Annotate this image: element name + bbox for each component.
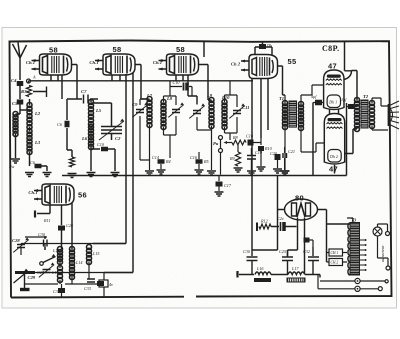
coil L5: [89, 100, 94, 127]
wire grid: [61, 205, 63, 225]
node terminal right 1: [378, 224, 390, 236]
wire cathode tap: [33, 87, 47, 98]
coil T2 primary: [355, 98, 360, 132]
tube V7 56: [28, 184, 74, 205]
wire grid bus: [29, 81, 254, 83]
wire from frame: [203, 42, 205, 58]
variable capacitor C2: [99, 103, 124, 141]
variable capacitor C9: [132, 102, 148, 117]
wire top cap box: [255, 42, 272, 55]
capacitor C32: [303, 247, 319, 275]
capacitor C8: [97, 142, 108, 151]
capacitor C33: [84, 279, 104, 291]
tube V2 58: [89, 54, 135, 75]
coil L6: [89, 125, 94, 150]
ground: [8, 159, 20, 169]
wire: [327, 253, 348, 263]
capacitor C26: [58, 223, 74, 231]
coil T1 primary: [283, 101, 288, 130]
lamp: [373, 224, 382, 258]
capacitor C22: [30, 160, 42, 168]
wire: [176, 65, 212, 105]
coil T3 primary: [348, 223, 350, 275]
fuse 2: [318, 286, 378, 291]
antenna: [13, 43, 27, 81]
wire: [285, 85, 324, 170]
ground: [111, 173, 120, 177]
wire: [212, 81, 238, 170]
coil L13: [58, 266, 63, 283]
wire right loop: [278, 66, 286, 95]
coil L9: [209, 98, 214, 129]
choke L16: [254, 266, 271, 282]
coil L15: [87, 245, 92, 265]
coil L7: [147, 97, 152, 128]
wire: [91, 149, 115, 171]
node terminal: [35, 211, 50, 224]
wire: [67, 99, 72, 157]
resistor R7: [21, 86, 32, 97]
ground: [25, 173, 34, 177]
capacitor C34: [341, 97, 357, 109]
capacitor C35: [305, 240, 314, 247]
box CH2: [329, 259, 343, 266]
wire: [16, 114, 21, 158]
coil L2: [27, 103, 32, 130]
wire long vertical to oscillator 2: [104, 73, 133, 273]
variable capacitor C29: [14, 269, 36, 290]
tube V8 80: [285, 199, 318, 220]
ground: [207, 171, 216, 175]
node terminal: [256, 223, 258, 232]
diode cap Dh: [259, 43, 272, 49]
tube V6 47: [324, 114, 344, 165]
coil L1: [13, 112, 18, 137]
wire: [42, 166, 48, 171]
wire 47 plate 2: [345, 129, 357, 154]
switch S1: [40, 254, 56, 265]
capacitor C14 with ground: [152, 155, 171, 174]
capacitor C18: [246, 134, 254, 146]
wire: [20, 99, 30, 114]
transformer core T1: [289, 101, 297, 127]
node terminal right 2: [386, 258, 390, 270]
variable capacitor C11: [229, 103, 249, 118]
wire outer frame loop: [10, 41, 392, 298]
node Pu terminals: [213, 136, 223, 153]
capacitor C6: [57, 121, 70, 128]
wire: [197, 117, 212, 130]
wire box A: [103, 273, 105, 297]
ground: [281, 171, 290, 175]
wire osc top: [21, 237, 126, 250]
capacitor C15 with ground: [257, 146, 273, 171]
resistor R6: [69, 157, 74, 167]
variable capacitor C27: [37, 262, 54, 277]
capacitor C20: [270, 151, 282, 173]
transformer core T2: [361, 100, 368, 128]
wire long vertical to oscillator: [93, 74, 126, 244]
wire ground bus: [62, 103, 347, 176]
choke L17: [287, 266, 305, 282]
wire 80 plates: [252, 176, 350, 263]
ground: [68, 174, 77, 178]
ground: [247, 171, 256, 175]
node B terminal: [236, 271, 238, 278]
capacitor C30b: [243, 249, 258, 275]
ground: [145, 171, 154, 175]
wire: [221, 138, 262, 175]
wire filter line: [239, 275, 320, 278]
capacitor C21: [283, 147, 295, 170]
node A terminal: [27, 75, 37, 84]
capacitor C10: [170, 80, 192, 96]
wire cathode: [37, 205, 50, 214]
coil L14: [70, 247, 75, 280]
wire: [91, 99, 100, 149]
capacitor C30: [38, 232, 47, 250]
battery box: [99, 280, 113, 287]
wire: [29, 127, 31, 166]
variable capacitor C13: [193, 111, 201, 114]
ground: [43, 173, 52, 177]
coil T2 secondary: [370, 101, 375, 129]
resistor R8: [224, 135, 247, 145]
wire: [19, 86, 21, 99]
ground: [234, 168, 243, 172]
capacitor C19: [247, 148, 263, 170]
resistor R12: [259, 219, 271, 229]
coil L3: [27, 129, 32, 155]
wire: [252, 79, 268, 250]
wire: [51, 65, 77, 100]
capacitor C24: [271, 216, 297, 231]
wire plate: [135, 65, 148, 100]
wire: [62, 203, 73, 249]
capacitor C7: [67, 89, 98, 104]
variable capacitor C28: [12, 237, 29, 255]
wire: [112, 75, 120, 81]
wire 80 filament: [288, 218, 305, 275]
fuse 1: [320, 278, 385, 283]
wire osc mid: [25, 262, 134, 284]
coil L10: [222, 100, 227, 130]
ground: [87, 173, 96, 177]
node terminal bottom 2: [385, 280, 388, 283]
wire osc bottom: [25, 284, 105, 297]
capacitor C23: [311, 94, 324, 105]
ground: [280, 171, 289, 175]
speaker: [389, 101, 400, 129]
wire bottom: [318, 258, 388, 289]
wire 47 cathodes: [313, 103, 339, 176]
wire: [140, 81, 176, 170]
tube V5 47: [324, 70, 344, 110]
coil L8: [161, 100, 166, 130]
capacitor C31: [53, 288, 65, 294]
tube V1 58: [26, 54, 72, 75]
wire: [372, 98, 388, 130]
coil T1 secondary: [299, 102, 304, 131]
resistor R9: [229, 152, 241, 166]
variable capacitor C12: [172, 110, 180, 113]
capacitor C17 with ground: [215, 176, 232, 197]
node terminal bottom 1: [378, 287, 382, 291]
capacitor C4: [11, 78, 23, 86]
wire 47 plate 1: [344, 42, 357, 100]
transformer core T3: [350, 223, 360, 276]
box CH1: [329, 249, 343, 256]
coil L12: [58, 247, 63, 265]
capacitor C5: [12, 100, 23, 107]
capacitor C25: [279, 249, 293, 275]
wire: [91, 102, 112, 104]
T3 secondary taps: [360, 239, 367, 271]
capacitor C16 with ground: [190, 152, 209, 174]
tube V4 55: [231, 55, 278, 79]
wire T3 top: [347, 218, 353, 223]
tube V3 58: [153, 54, 199, 75]
